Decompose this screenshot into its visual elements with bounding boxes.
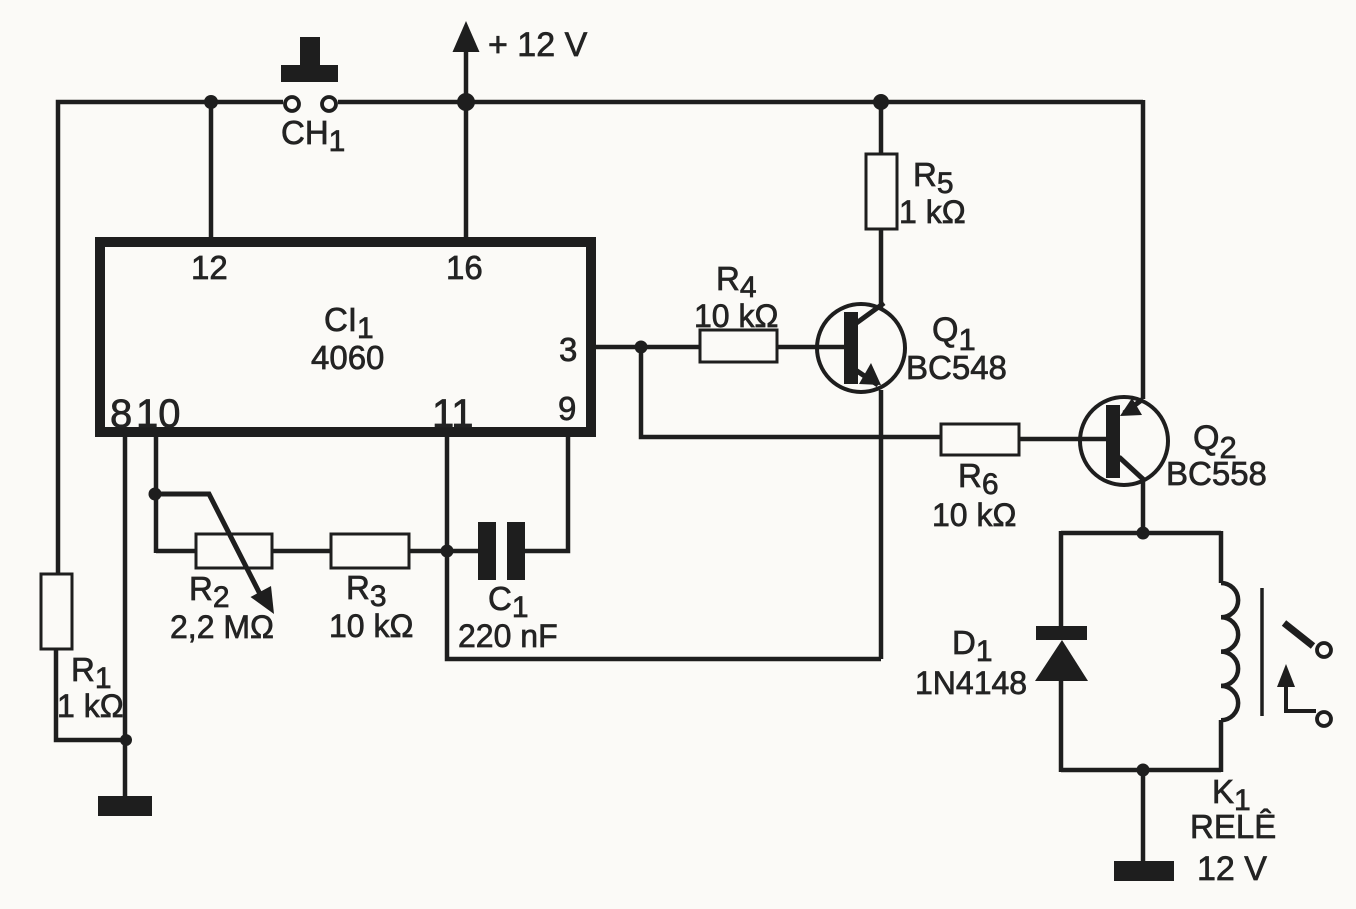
svg-text:220 nF: 220 nF: [458, 618, 558, 654]
resistor R3: [331, 534, 409, 568]
relay upper contact circle: [1317, 643, 1331, 657]
node junction dot R1/pin8: [120, 734, 132, 746]
svg-text:10 kΩ: 10 kΩ: [932, 497, 1016, 533]
relay K1 coil: [1221, 531, 1238, 772]
wire R3 to C1 node: [409, 549, 478, 554]
wire Q2 collector to relay node: [1141, 481, 1146, 535]
svg-text:12 V: 12 V: [1197, 850, 1267, 888]
resistor R2 body: [196, 534, 272, 568]
node junction dot +12V/rail: [457, 93, 475, 111]
wire pin 3 to node: [596, 345, 700, 350]
wire node down and across to R6: [641, 347, 941, 437]
svg-text:+ 12 V: + 12 V: [488, 26, 588, 64]
wire R4 to Q1 base: [777, 345, 844, 350]
wire Q1 emitter down: [879, 390, 884, 659]
wire D1 branch upper: [1059, 531, 1064, 627]
relay lower contact circle: [1317, 712, 1331, 726]
svg-text:1 kΩ: 1 kΩ: [899, 194, 966, 230]
wire C1 to pin 9: [525, 437, 568, 551]
wire R5 to Q1 collector: [879, 229, 884, 308]
resistor R6: [941, 424, 1019, 455]
node junction dot relay bottom: [1137, 764, 1150, 777]
relay actuation arrow: [1277, 664, 1316, 711]
svg-text:12: 12: [191, 249, 228, 286]
op IC CI1 4060 body: [100, 242, 591, 432]
wire D1 branch lower: [1059, 680, 1064, 772]
node junction dot R3/C1/pin11: [441, 545, 454, 558]
svg-text:11: 11: [432, 392, 474, 436]
node junction dot R5/rail: [873, 94, 889, 110]
wire node down and across to Q1 emitter: [447, 551, 881, 659]
svg-text:3: 3: [559, 331, 577, 368]
wire relay frame top: [1061, 531, 1221, 536]
relay contact lever: [1284, 623, 1313, 646]
wire relay frame bottom: [1061, 768, 1221, 773]
node junction dot pin12/rail: [204, 95, 218, 109]
svg-text:RELÊ: RELÊ: [1190, 808, 1276, 845]
wire top rail: left segment to CH1: [58, 102, 283, 575]
svg-text:BC548: BC548: [906, 349, 1007, 386]
switch CH1 right contact circle: [322, 97, 336, 111]
capacitor C1: [478, 522, 525, 580]
svg-text:10: 10: [136, 392, 181, 436]
node junction dot pin 3: [635, 341, 648, 354]
svg-text:8: 8: [110, 392, 132, 436]
svg-text:2,2 MΩ: 2,2 MΩ: [170, 609, 274, 645]
transistor Q1 BC548: [817, 303, 905, 392]
wire rail to R5: [879, 102, 884, 154]
wire top rail: CH1 to top-right corner: [338, 100, 1143, 105]
switch CH1 push-button actuator: [281, 37, 338, 82]
wire right rail down to Q2 emitter: [1141, 100, 1146, 399]
wire pin 10 down: [154, 437, 159, 553]
wire pin 12 drop from rail: [209, 102, 214, 240]
ground right: [1114, 861, 1174, 881]
resistor R5: [866, 154, 897, 229]
resistor R4: [700, 330, 777, 362]
trimpot R2 wiper arrow: [158, 494, 274, 614]
wire pin 8 down to ground: [123, 437, 128, 797]
svg-text:10 kΩ: 10 kΩ: [694, 298, 778, 334]
wire R2 to R3: [272, 549, 331, 554]
svg-text:10 kΩ: 10 kΩ: [329, 608, 413, 644]
wire pin10 to R2: [156, 549, 196, 554]
wire relay node to ground: [1141, 770, 1146, 862]
transistor Q2 BC558: [1080, 397, 1168, 485]
svg-text:BC558: BC558: [1166, 455, 1267, 492]
svg-text:1N4148: 1N4148: [915, 665, 1027, 701]
wire +12V stem down to pin 16: [464, 46, 469, 240]
wire R6 to Q2 base: [1019, 437, 1106, 442]
ground left: [98, 796, 152, 816]
resistor R1: [41, 574, 72, 649]
diode D1 1N4148: [1035, 626, 1088, 681]
relay armature bar: [1260, 588, 1264, 716]
svg-text:1 kΩ: 1 kΩ: [57, 688, 124, 724]
svg-text:16: 16: [446, 249, 483, 286]
node junction dot relay top: [1137, 527, 1150, 540]
power +12V arrowhead: [453, 21, 480, 52]
switch CH1 left contact circle: [285, 97, 299, 111]
wire pin 11 down: [445, 437, 450, 551]
svg-text:4060: 4060: [311, 339, 384, 376]
node junction dot R2 wiper: [149, 488, 162, 501]
svg-text:9: 9: [558, 390, 576, 427]
wire R1 bottom to pin8 line: [56, 649, 126, 740]
